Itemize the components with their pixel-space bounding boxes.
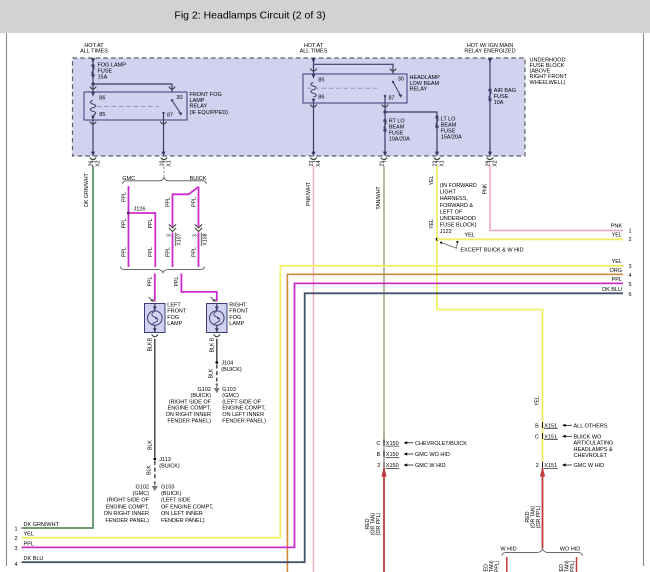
svg-text:1: 1 [629,228,632,234]
svg-text:ALL OTHERS: ALL OTHERS [574,423,608,429]
label G103 (GMC) ground mid [222,387,266,425]
svg-text:PPL: PPL [121,247,127,257]
exit arrow RT LO [383,152,387,157]
fuse RT LO BEAM FUSE 10A/20A [384,119,410,143]
svg-text:FENDER PANEL): FENDER PANEL) [167,418,211,424]
node J113 [153,458,156,461]
pin 26 X2 connector [88,158,101,167]
pin cup 30 top [169,87,175,89]
svg-text:G102: G102 [136,484,149,490]
wire headlamp relay feed [311,58,393,74]
relay switch arm (headlamp) [393,82,402,98]
svg-text:PPL: PPL [191,247,197,257]
pin 87 stub [163,113,165,120]
connector X150 row 2 [377,462,445,469]
svg-text:10: 10 [159,161,165,167]
svg-text:15A: 15A [98,75,108,81]
label G102 (GMC) ground left [104,484,150,524]
exit arrow LT LO [435,152,439,157]
wire YEL row 3 [22,266,624,538]
pin 86 exit arrow [312,99,316,103]
svg-text:ON LEFT INNER: ON LEFT INNER [161,511,203,517]
svg-text:PPL: PPL [612,277,622,283]
svg-text:86: 86 [318,94,324,100]
svg-text:W HID: W HID [500,546,516,552]
wire to relay pin 30 [93,84,172,92]
lamp RIGHT FRONT FOG LAMP [207,297,228,337]
svg-text:PNK: PNK [611,224,623,230]
label 3 X107 [167,233,183,247]
svg-text:RELAY ENERGIZED: RELAY ENERGIZED [464,48,515,54]
svg-text:C: C [535,434,539,440]
connector X151 row C [535,433,614,459]
node 87 fuse split [383,110,386,113]
connector X151 row B [535,422,608,429]
svg-text:ORG: ORG [609,268,622,274]
labels PPL column v1 [121,192,127,257]
wire relay 86 to block edge [311,103,315,156]
svg-text:PPL: PPL [165,247,171,257]
labels YEL rotated on vertical [429,175,541,405]
label B / BLK left [147,337,153,450]
node fuse/relay junction [91,82,94,85]
wire YEL branch to right edge [437,238,623,240]
svg-text:J113: J113 [159,457,171,463]
ground G102/G103 (bottom left) [152,481,158,491]
svg-text:YEL: YEL [465,232,475,238]
connector X150 row B [377,451,450,458]
svg-text:(OR PPL): (OR PPL) [376,512,382,535]
svg-text:LIGHT: LIGHT [440,190,457,196]
svg-text:85: 85 [318,77,324,83]
wire BLK right lamp down [216,339,218,361]
wire to LT LO fuse [385,112,437,153]
wire DK GRN/WHT vertical [22,166,94,528]
label RED clipped (W HID) [483,560,500,572]
svg-text:B: B [377,452,381,458]
svg-text:29: 29 [485,161,491,167]
svg-text:PPL: PPL [165,197,171,207]
svg-text:(RIGHT SIDE OF: (RIGHT SIDE OF [169,399,212,405]
svg-text:(BUICK): (BUICK) [221,367,242,373]
wire RED stub WO HID [576,557,578,572]
svg-text:FOG: FOG [229,315,241,321]
svg-text:X107: X107 [176,233,182,245]
label HEADLAMP LOW BEAM RELAY [410,75,441,93]
svg-text:LEFT OF: LEFT OF [440,209,463,215]
brace PPL merge [121,267,205,273]
svg-text:ARTICULATING: ARTICULATING [574,441,614,447]
relay coil (headlamp) [311,83,316,97]
pin cup 86 below relay (headlamp) [310,105,316,107]
wire PPL to left fog lamp [154,274,156,302]
svg-text:3: 3 [629,264,632,270]
svg-text:LEFT: LEFT [167,303,181,309]
svg-text:PPL: PPL [148,276,154,286]
fuse AIR BAG FUSE 10A [489,88,516,106]
svg-text:PPL: PPL [148,218,154,228]
labels PPL column v3 [165,197,171,257]
svg-text:J122: J122 [440,229,452,235]
pin 22 X1 connector [432,158,445,167]
svg-text:YEL: YEL [429,175,435,185]
pin 30 node [392,81,394,83]
wire relay 87 down to fuses [384,103,386,153]
connector X150 row C [376,440,467,447]
svg-text:X2: X2 [493,160,499,166]
wire fog fuse feed [91,58,95,92]
svg-text:ENGINE COMPT,: ENGINE COMPT, [222,406,266,412]
svg-text:2: 2 [629,237,632,243]
svg-text:FENDER PANEL): FENDER PANEL) [222,418,266,424]
svg-text:2: 2 [377,463,380,469]
svg-text:G103: G103 [161,484,174,490]
svg-text:(OR PPL): (OR PPL) [536,505,542,528]
svg-text:(LEFT SIDE: (LEFT SIDE [161,498,191,504]
header bar [0,0,650,33]
svg-text:(IF EQUIPPED): (IF EQUIPPED) [190,110,229,116]
pin 10 X1 connector [159,158,172,167]
wire PNK from pin 29 to right edge [490,166,623,230]
svg-text:ENGINE COMPT,: ENGINE COMPT, [106,504,150,510]
page left border [6,33,8,566]
svg-text:ON RIGHT INNER: ON RIGHT INNER [104,511,149,517]
wire PPL row 5 [22,283,624,547]
svg-text:J104: J104 [221,360,233,366]
svg-text:PPL: PPL [24,541,34,547]
relay dashed center line (headlamp) [307,87,380,89]
wire PPL v4 (BUICK) [198,187,200,227]
svg-text:B: B [209,337,215,341]
wire ORG row 4 [287,274,623,572]
svg-text:26: 26 [88,161,94,167]
wire PPL v3 upper [173,187,199,227]
svg-text:BUICK WO: BUICK WO [574,434,603,440]
svg-text:(OR PPL): (OR PPL) [570,560,576,572]
svg-text:15A/20A: 15A/20A [441,135,462,141]
brace W HID / WO HID [502,549,582,556]
svg-text:X4: X4 [316,160,322,166]
svg-text:X108: X108 [202,233,208,245]
svg-text:FOG: FOG [167,315,179,321]
svg-text:3: 3 [15,546,18,552]
svg-text:G103: G103 [222,387,235,393]
svg-text:(RIGHT SIDE OF: (RIGHT SIDE OF [107,498,150,504]
label G102 (BUICK) ground mid [166,387,212,425]
pin 87 node [162,112,164,114]
fuse LT LO BEAM FUSE 15A/20A [436,116,462,141]
svg-text:(OR PPL): (OR PPL) [494,560,500,572]
svg-text:Fig 2: Headlamps Circuit (2 of: Fig 2: Headlamps Circuit (2 of 3) [174,10,325,22]
svg-text:4: 4 [629,273,632,279]
svg-text:J126: J126 [134,207,146,213]
wire DK BLU row 6 [22,293,624,562]
svg-text:YEL: YEL [612,232,622,238]
svg-text:RELAY: RELAY [410,87,428,93]
svg-text:DK GRN/WHT: DK GRN/WHT [84,172,90,206]
label LEFT FRONT FOG LAMP [167,303,187,328]
svg-text:B: B [147,337,153,341]
svg-text:1: 1 [15,526,18,532]
svg-text:ALL TIMES: ALL TIMES [300,48,328,54]
label FRONT FOG LAMP RELAY [190,92,229,116]
label 3 X108 [193,233,209,247]
relay FRONT FOG LAMP RELAY box [84,92,187,120]
svg-text:B: B [535,423,539,429]
pin 27 X4 connector [309,158,322,167]
pin 87 stub (headlamp) [384,96,386,103]
svg-text:(BUICK): (BUICK) [159,463,180,469]
node J104 [215,361,218,364]
svg-text:87: 87 [389,95,395,101]
svg-text:BLK: BLK [147,341,153,351]
pin 21 connector [379,158,387,167]
label G103 (BUICK) ground left [161,484,214,524]
label J113 (BUICK) [159,457,180,470]
wire PPL J126 branch [129,213,156,267]
svg-text:PPL: PPL [191,197,197,207]
pin cup 30 top [390,69,396,71]
wire PPL v1 (GMC) [128,186,130,267]
label HOT AT ALL TIMES (left) [80,43,108,55]
svg-text:FENDER PANEL): FENDER PANEL) [105,518,149,524]
fuse FOG LAMP FUSE 15A [92,63,126,81]
pin 87 node (headlamp) [384,95,386,97]
pin cup 87 below relay (headlamp) [382,105,388,107]
relay switch arm (fog) [172,100,182,116]
svg-text:GMC WO HID: GMC WO HID [415,452,450,458]
svg-text:PPL: PPL [121,218,127,228]
wire BLK dashed to ground (mid) [209,365,217,382]
wire dashed stub pin 10 [163,167,165,178]
svg-text:BLK: BLK [209,342,215,352]
svg-text:WO HID: WO HID [560,546,580,552]
svg-text:GMC W HID: GMC W HID [574,463,605,469]
svg-text:PPL: PPL [148,247,154,257]
svg-text:FUSE BLOCK): FUSE BLOCK) [440,223,477,229]
pin 86 arrow [91,92,95,96]
wire PNK/WHT from pin 27 [313,166,315,572]
svg-text:HEADLAMPS &: HEADLAMPS & [574,447,613,453]
svg-text:CHEVROLET: CHEVROLET [574,453,608,459]
svg-text:FORWARD &: FORWARD & [440,203,474,209]
wire RED stub W HID [506,557,508,572]
svg-text:30: 30 [398,76,404,82]
svg-text:RELAY: RELAY [190,104,208,110]
pin 85 arrow [312,74,316,78]
svg-text:BLK: BLK [147,465,153,475]
svg-text:EXCEPT BUICK & W HID: EXCEPT BUICK & W HID [460,247,523,253]
label (IN FORWARD LIGHT HARNESS...) J122 [440,183,477,235]
label UNDERHOOD FUSE BLOCK [530,57,568,85]
label RED (OR TAN) (OR PPL) at X151 [525,505,542,528]
svg-text:10A: 10A [494,100,504,106]
svg-text:27: 27 [309,161,315,167]
wire relay 85 to block edge [91,120,95,156]
relay HEADLAMP LOW BEAM RELAY box [303,74,407,103]
svg-text:PPL: PPL [121,192,127,202]
svg-text:GMC W HID: GMC W HID [415,463,446,469]
svg-text:BLK: BLK [147,440,153,450]
label B / BLK right [209,337,215,352]
svg-text:X1: X1 [167,160,173,166]
svg-text:87: 87 [167,113,173,119]
wire PPL v3 lower [172,233,174,268]
svg-text:ENGINE COMPT,: ENGINE COMPT, [168,406,212,412]
svg-text:10A/20A: 10A/20A [389,137,410,143]
svg-text:86: 86 [99,95,105,101]
svg-text:LAMP: LAMP [229,321,244,327]
svg-text:G102: G102 [198,387,211,393]
labels PPL column v2 [148,218,154,256]
pin 29 X2 connector [485,158,498,167]
svg-text:X2: X2 [96,160,102,166]
svg-text:YEL: YEL [429,219,435,229]
svg-text:6: 6 [629,292,632,298]
wire air bag fuse feed [488,58,492,156]
label RIGHT FRONT FOG LAMP [229,303,249,328]
pin cup 85 top [310,69,316,71]
svg-text:RIGHT: RIGHT [229,303,247,309]
label RED (OR TAN) (OR PPL) at X150 [365,512,382,535]
svg-text:YEL: YEL [24,532,34,538]
svg-text:ALL TIMES: ALL TIMES [80,48,108,54]
svg-text:22: 22 [432,161,438,167]
wire RED below X150 [381,467,386,572]
wire PPL v4 lower [198,233,200,268]
wire TAN/WHT from pin 21 [383,166,385,462]
lamp LEFT FRONT FOG LAMP [145,297,166,337]
pin cup 86 top [90,87,96,89]
svg-text:GMC: GMC [122,176,135,182]
svg-text:DK GRN/WHT: DK GRN/WHT [24,522,60,528]
page right border [643,33,645,566]
svg-text:2: 2 [15,536,18,542]
svg-text:LAMP: LAMP [167,321,182,327]
underhood fuse block box [73,58,526,156]
svg-text:TAN/WHT: TAN/WHT [376,186,382,210]
svg-text:BLK: BLK [209,368,215,378]
svg-text:DK BLU: DK BLU [602,287,622,293]
svg-text:(GMC): (GMC) [222,393,239,399]
wire BLK dashed to ground (left) [147,461,155,479]
wire relay 87 to block edge [161,120,165,156]
svg-text:5: 5 [629,282,632,288]
svg-text:UNDERHOOD: UNDERHOOD [440,216,476,222]
pin cup 87 below relay [160,122,166,124]
svg-text:(LEFT SIDE OF: (LEFT SIDE OF [222,399,261,405]
svg-text:CHEVROLET/BUICK: CHEVROLET/BUICK [415,441,467,447]
connector X108 chevrons [195,224,202,231]
svg-text:(IN FORWARD: (IN FORWARD [440,183,477,189]
svg-text:2: 2 [536,463,539,469]
wire BLK left lamp down [154,339,156,458]
pin cup 85 below relay [90,122,96,124]
svg-text:PNK: PNK [482,183,488,194]
svg-text:ON RIGHT INNER: ON RIGHT INNER [166,412,211,418]
label J104 (BUICK) [221,360,242,373]
pin 85 exit arrow [91,116,95,120]
relay dashed center line [97,106,159,108]
svg-text:OF ENGINE COMPT,: OF ENGINE COMPT, [161,504,214,510]
svg-text:X1: X1 [440,160,446,166]
relay coil (fog) [90,101,95,115]
pointer EXCEPT BUICK & W HID [440,241,523,254]
svg-text:30: 30 [176,95,182,101]
svg-text:DK BLU: DK BLU [24,556,44,562]
svg-text:ON LEFT INNER: ON LEFT INNER [222,412,264,418]
svg-text:FRONT: FRONT [229,309,249,315]
svg-text:YEL: YEL [535,396,541,406]
svg-text:FENDER PANEL): FENDER PANEL) [161,518,205,524]
label RED clipped (WO HID) [559,560,576,572]
pin 30 node [171,99,173,101]
connector X107 chevrons [169,224,176,231]
svg-text:(BUICK): (BUICK) [191,393,212,399]
svg-text:PNK/WHT: PNK/WHT [306,181,312,206]
label HOT W/ IGN MAIN RELAY ENERGIZED [464,43,515,55]
svg-text:C: C [376,441,380,447]
svg-text:HARNESS,: HARNESS, [440,196,469,202]
svg-text:85: 85 [99,112,105,118]
node J122 [436,238,439,241]
svg-text:4: 4 [15,562,18,568]
wire YEL from pin 22 to X151 [437,166,543,462]
svg-text:PPL: PPL [174,276,180,286]
wire RED below X151 [540,467,545,549]
svg-text:YEL: YEL [612,259,622,265]
svg-text:BUICK: BUICK [190,176,207,182]
svg-text:(BUICK): (BUICK) [161,491,182,497]
brace GMC/BUICK [123,178,207,184]
svg-text:FRONT: FRONT [167,309,187,315]
wire PPL to right fog lamp [181,274,216,302]
labels PPL column v4 [191,197,197,257]
ground G102/G103 (mid) [214,383,220,393]
label HOT AT ALL TIMES (middle) [300,43,328,55]
connector X151 row 2 [536,462,604,469]
svg-text:(GMC): (GMC) [133,491,150,497]
svg-text:21: 21 [379,161,385,167]
node J126 [127,212,130,215]
svg-text:WHEELWELL): WHEELWELL) [530,80,566,86]
